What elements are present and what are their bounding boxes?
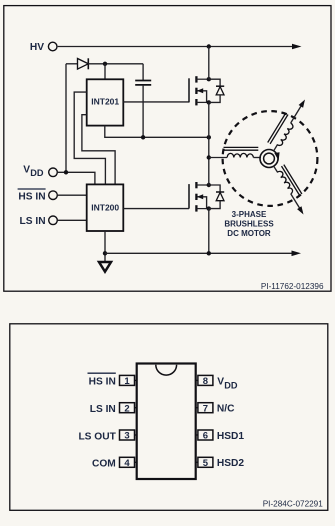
wire INT201 upper-left pin [74, 92, 105, 184]
label VDD [217, 376, 238, 390]
svg-text:PI-11762-012396: PI-11762-012396 [261, 282, 324, 291]
svg-text:4: 4 [124, 458, 130, 469]
svg-text:HS IN: HS IN [89, 377, 116, 388]
core lines winding C [282, 166, 300, 195]
svg-text:8: 8 [203, 376, 208, 387]
wire VB to capacitor C1 [142, 64, 144, 80]
wire LS IN to INT200 [57, 219, 86, 221]
diode D2 body diode [209, 79, 224, 102]
transistor Q1 high-side MOSFET [189, 76, 211, 105]
svg-text:N/C: N/C [217, 404, 235, 415]
arrow HV rail to motor phases [292, 44, 302, 50]
pin 3 box [120, 430, 137, 442]
junction ground rail [103, 251, 107, 255]
motor rotation arrowhead [274, 152, 279, 160]
wire winding B to phase arrow [291, 105, 302, 123]
wire VDD to bootstrap diode anode [65, 64, 67, 173]
core lines winding B [270, 115, 288, 144]
pin 1 box [120, 375, 137, 387]
capacitor C1 bootstrap [135, 81, 151, 85]
IC package DIP-8 body [137, 364, 196, 480]
core lines winding A [224, 146, 259, 148]
svg-text:HSD2: HSD2 [217, 458, 245, 469]
svg-text:HS IN: HS IN [18, 191, 45, 202]
pin 7 box [196, 403, 213, 415]
package pin-1 notch [156, 365, 177, 375]
op-amp U1 INT201 high-side driver box [87, 79, 124, 125]
junction HV rail / high-side drain [207, 44, 211, 48]
label HS IN [88, 373, 116, 388]
wire INT201 gate output to Q1 [123, 101, 189, 103]
svg-text:INT200: INT200 [91, 203, 119, 213]
arrow phase C [297, 206, 303, 214]
svg-text:PI-284C-072291: PI-284C-072291 [263, 499, 324, 508]
junction C1 on switch-node rail [141, 135, 145, 139]
wire ground rail [105, 252, 295, 254]
wire C1 bottom to switch-node rail [142, 85, 144, 137]
arrow phase B [299, 100, 305, 108]
ground symbol [99, 262, 111, 272]
svg-text:V: V [217, 376, 224, 387]
terminal LS IN [49, 216, 58, 225]
wire HV rail [58, 46, 295, 48]
label HS IN with overline [18, 189, 46, 202]
pin 6 box [196, 430, 213, 442]
svg-text:LS IN: LS IN [20, 216, 46, 227]
bootstrap diode D1 [78, 58, 89, 69]
inductor phase winding B (upper right) [268, 100, 305, 151]
wire HS IN to INT200 [57, 194, 86, 196]
wire diode anode stub [66, 63, 78, 65]
junction bootstrap node VB [103, 62, 107, 66]
svg-text:DD: DD [224, 380, 238, 390]
svg-text:3: 3 [124, 431, 129, 442]
op-amp U2 INT200 low-side driver box [87, 184, 124, 231]
svg-text:LS IN: LS IN [90, 404, 116, 415]
wire INT201 lower-left pin [82, 115, 115, 185]
pin 2 box [120, 403, 137, 415]
wire INT200 gate output to Q2 [123, 208, 189, 210]
wire HV rail to Q1 drain [208, 47, 210, 80]
transistor Q2 low-side MOSFET [189, 182, 211, 212]
svg-text:INT201: INT201 [91, 97, 119, 107]
svg-text:BRUSHLESS: BRUSHLESS [224, 220, 274, 229]
motor hub outer circle [260, 150, 278, 168]
wire INT200 COM pin down [104, 231, 106, 262]
wire Q1 source to Q2 drain (switch node) [208, 102, 210, 185]
svg-text:V: V [23, 165, 30, 176]
junction Q2 source on ground rail [207, 251, 211, 255]
wire switch node to phase winding [209, 157, 227, 159]
inductor phase winding A (left) [224, 147, 262, 157]
pin 5 box [196, 457, 213, 469]
arrow ground rail to motor phases [292, 251, 302, 257]
inductor phase winding C (lower right) [274, 165, 304, 215]
junction switch-node rail / trunk [207, 135, 211, 139]
svg-text:6: 6 [203, 431, 208, 442]
svg-text:HSD1: HSD1 [217, 431, 245, 442]
terminal HV [48, 42, 57, 51]
wire VB to INT201 top pin [104, 64, 106, 80]
svg-text:HV: HV [30, 42, 44, 53]
label VDD [23, 165, 44, 178]
diode D3 body diode [209, 185, 224, 209]
pin 8 box [196, 375, 213, 387]
wire winding C to phase arrow [291, 194, 301, 210]
svg-text:1: 1 [124, 376, 130, 387]
svg-text:DC MOTOR: DC MOTOR [227, 229, 271, 238]
junction VDD node [64, 170, 68, 174]
pin 4 box [120, 457, 137, 469]
wire INT201 bottom pin to switch-node rail [105, 126, 209, 138]
panel 2 border frame [10, 324, 328, 511]
svg-text:7: 7 [203, 403, 208, 414]
panel 1 border frame [4, 6, 331, 292]
wire Q2 source to ground rail [208, 209, 210, 254]
junction switch node to motor winding [207, 155, 211, 159]
svg-text:2: 2 [124, 403, 129, 414]
svg-text:LS OUT: LS OUT [78, 431, 116, 442]
svg-text:COM: COM [92, 459, 116, 470]
svg-text:5: 5 [203, 458, 209, 469]
wire diode cathode to bootstrap node [88, 63, 143, 65]
terminal HS IN [49, 191, 58, 200]
svg-text:DD: DD [30, 168, 44, 178]
label 3-PHASE BRUSHLESS DC MOTOR [224, 210, 274, 238]
svg-text:3-PHASE: 3-PHASE [232, 210, 267, 219]
wire VDD to INT200 [57, 172, 95, 184]
motor M1 boundary dashed circle [223, 111, 318, 206]
terminal VDD [49, 168, 58, 177]
motor hub inner circle [264, 153, 275, 164]
